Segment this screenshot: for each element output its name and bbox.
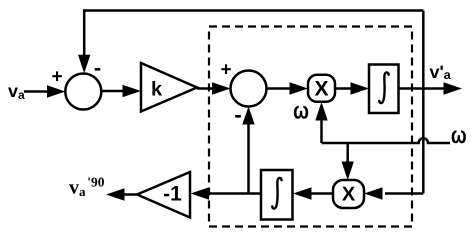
svg-text:-1: -1 [163, 183, 182, 206]
wire S2 to X1 [266, 82, 308, 94]
summing junction S2 [231, 71, 267, 107]
wire feedback top [78, 11, 423, 74]
wire omega horizontal with hop [322, 138, 451, 143]
wire S1 to k [101, 85, 141, 97]
amplifier k [141, 63, 197, 112]
svg-text:-: - [234, 102, 241, 127]
integrator U1 [369, 65, 399, 114]
wire input [24, 85, 65, 97]
wire integrator2 to -1 [191, 187, 262, 199]
wire X1 to integrator1 [335, 82, 369, 94]
multiplier X2 [333, 180, 364, 208]
svg-text:+: + [220, 60, 231, 81]
wire k to S2 [197, 82, 231, 94]
wire omega to X1 [315, 102, 327, 143]
integrator U2 [261, 170, 293, 220]
svg-text:+: + [51, 67, 62, 88]
dashed box [209, 27, 412, 227]
wire feedback to X2 [364, 187, 423, 199]
wire omega to X2 [342, 142, 354, 180]
wire feedback vertical [422, 11, 425, 194]
wire X2 to integrator2 [293, 187, 333, 199]
svg-text:X: X [342, 183, 356, 205]
svg-text:ω: ω [293, 98, 309, 125]
amplifier -1 [137, 172, 190, 218]
svg-text:-: - [94, 55, 101, 80]
svg-text:k: k [151, 79, 163, 101]
wire -1 output [106, 188, 137, 200]
wire to S2 minus [242, 107, 254, 194]
svg-text:X: X [314, 78, 328, 101]
multiplier X1 [308, 75, 335, 102]
wire output [399, 82, 463, 94]
svg-text:ω: ω [451, 122, 467, 149]
summing junction S1 [65, 74, 101, 110]
